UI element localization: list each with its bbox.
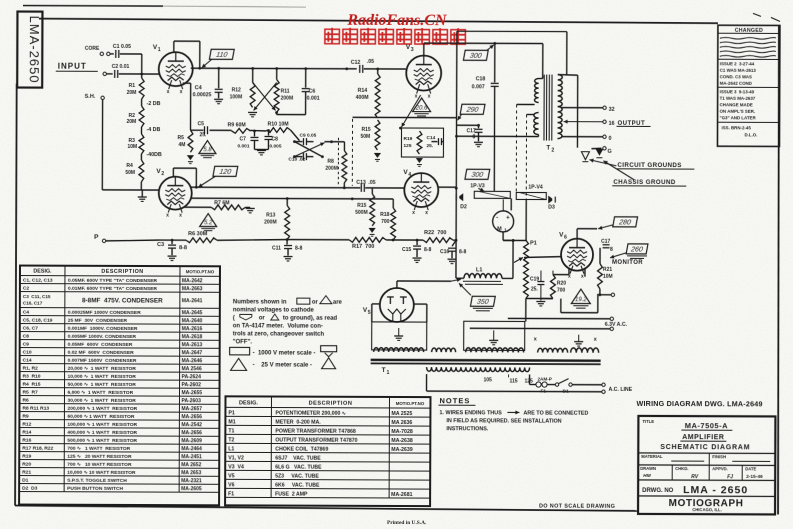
svg-text:T2: T2 [228,437,234,443]
svg-text:10,000 ∿ 10 WATT RESISTOR: 10,000 ∿ 10 WATT RESISTOR [67,470,136,476]
B+ riser [455,31,458,240]
svg-text:R21: R21 [22,470,31,476]
svg-text:0.05MF. 600V TYPE "TA" CONDENS: 0.05MF. 600V TYPE "TA" CONDENSER [68,278,158,284]
svg-text:FINISH: FINISH [712,454,726,459]
svg-text:WIRING DIAGRAM DWG. LMA-2649: WIRING DIAGRAM DWG. LMA-2649 [636,399,762,408]
svg-text:8-8: 8-8 [179,245,187,251]
svg-text:METER 0-200 MA.: METER 0-200 MA. [275,419,321,425]
svg-text:400M: 400M [356,95,369,101]
capacitor C18 .007 [494,43,496,82]
arrow 120 to V2 plate [198,176,215,187]
svg-text:500,000 ∿ 1 WATT RESISTOR: 500,000 ∿ 1 WATT RESISTOR [67,438,137,444]
voltage box 290 [460,104,485,114]
svg-text:6L6 G VAC. TUBE: 6L6 G VAC. TUBE [275,464,322,470]
cathode resistor R7 6M wire [183,206,211,208]
svg-text:R9: R9 [22,414,29,420]
dashed link 1P-V3 [515,104,517,192]
revision box CHANGED [717,25,779,146]
svg-text:C7: C7 [239,136,246,142]
svg-text:2-15-46: 2-15-46 [746,474,763,480]
wire V5 plates down [372,303,380,305]
arrow 290 to riser [458,114,462,120]
capacitor C11 8-8 [286,240,288,245]
wire C6 drop [305,69,307,88]
wire jack row verticals [510,198,512,210]
svg-text:R4 R15: R4 R15 [23,382,41,388]
svg-text:DRAWN: DRAWN [640,466,656,471]
capacitor C4 .00025 [215,88,223,90]
svg-text:SCHEMATIC DIAGRAM: SCHEMATIC DIAGRAM [660,444,750,451]
border frame right [777,25,780,514]
svg-text:CHANGE MADE: CHANGE MADE [720,102,753,107]
svg-text:105: 105 [484,377,493,383]
svg-text:MA-2641: MA-2641 [182,298,203,304]
svg-text:20.6: 20.6 [415,105,428,111]
resistor R14 400M [376,68,379,71]
svg-text:R17 700: R17 700 [352,244,374,250]
wire L1 to P1 top [502,277,513,279]
resistor R5 4M [188,130,193,152]
resistor R18 700 [391,208,396,240]
choke core hatch [463,280,501,282]
rectifier tube V5 5Z3 [380,288,414,322]
T1 winding 4 [538,348,568,352]
wire input to C1 [110,53,114,55]
svg-text:5.2: 5.2 [204,220,213,226]
svg-text:CIRCUIT GROUNDS: CIRCUIT GROUNDS [617,162,681,169]
svg-text:0.001: 0.001 [307,96,320,102]
resistor R11 200M [274,80,279,113]
svg-text:30,000 ∿ 1 WATT RESISTOR: 30,000 ∿ 1 WATT RESISTOR [67,398,136,404]
svg-text:20,000 ∿ 1 WATT RESISTOR: 20,000 ∿ 1 WATT RESISTOR [68,366,137,372]
svg-text:C2: C2 [23,286,30,292]
svg-text:700: 700 [381,219,390,225]
svg-text:P1: P1 [228,410,234,416]
bias bus to B+ riser [453,239,456,241]
triangle 20.6 cathode V3 [413,98,431,112]
corner pen marks [753,13,761,16]
svg-text:POWER TRANSFORMER T47868: POWER TRANSFORMER T47868 [275,428,356,434]
svg-text:400,000 ∿ 1 WATT RESISTOR: 400,000 ∿ 1 WATT RESISTOR [67,430,137,436]
svg-text:R5 R7: R5 R7 [22,390,38,396]
wire P1 wiper to V6 grid [524,256,561,257]
svg-text:MA-2642 COND: MA-2642 COND [720,81,752,86]
svg-text:300: 300 [469,53,482,60]
arrow 1P-V3 [478,188,484,191]
output transformer T2 core [543,75,545,141]
svg-text:C16, C17: C16, C17 [23,301,43,306]
wire C1 to divider [120,53,142,55]
svg-text:CHASSIS GROUND: CHASSIS GROUND [613,179,675,186]
svg-text:1. WIRES ENDING THUS: 1. WIRES ENDING THUS [439,410,502,416]
wire riser to L1 [455,240,457,278]
capacitor C6 .001 [302,88,310,90]
svg-text:R21: R21 [603,267,612,273]
svg-text:"OFF".: "OFF". [233,339,253,345]
svg-text:280: 280 [618,219,632,226]
V3 cathode diagonal [402,95,421,127]
svg-text:120: 120 [219,169,232,176]
svg-text:D2 D3: D2 D3 [22,486,38,492]
svg-text:0.007: 0.007 [472,84,485,90]
wire V2 plate to top [172,168,174,177]
resistor R9 60M [232,128,251,133]
svg-text:FUSE 2 AMP: FUSE 2 AMP [275,491,308,497]
wire C6 to R11 bottom [305,92,307,115]
dashed link 1P-V4 [525,114,527,199]
wire M1 bottom [502,232,504,240]
svg-text:RadioFans.CN: RadioFans.CN [346,12,448,29]
svg-text:trols at zero, changeover swit: trols at zero, changeover switch [233,331,325,337]
wire S.H. down to V2 grid [101,100,103,190]
T1 shield box middle [464,321,525,350]
voltage box 300 plate [463,50,488,60]
resistor R13 200M [286,199,288,206]
resistor R7 6M [211,205,245,210]
monitor section bottom wire [526,297,553,299]
capacitor C2 .01 [114,70,116,78]
svg-text:P1: P1 [530,240,537,246]
voltage box 300 screen [465,169,490,179]
svg-text:0.02 MF 600V CONDENSER: 0.02 MF 600V CONDENSER [68,350,135,356]
wire R3-R4 [140,154,142,160]
svg-text:R16: R16 [22,438,31,444]
svg-text:CHKD.: CHKD. [675,466,688,471]
wire V1 plate to top [173,41,175,52]
svg-text:C17: C17 [601,239,610,245]
wire R21 to terminal [599,289,601,295]
wire R11 drop [276,69,278,80]
svg-text:0.001: 0.001 [237,143,249,149]
svg-text:HM: HM [643,473,651,479]
capacitor C7 .001 [253,131,255,136]
svg-text:1P-V3: 1P-V3 [470,183,485,189]
dashed gang link C13 [351,119,353,186]
ground arrow below R15 [374,153,381,158]
wire R1-R2 [141,99,143,106]
svg-text:0.005: 0.005 [269,143,281,149]
svg-text:PA-2602: PA-2602 [182,382,202,388]
svg-text:R18: R18 [380,212,389,218]
svg-text:C5, C18, C19: C5, C18, C19 [23,318,53,324]
svg-text:x: x [166,213,169,219]
T1 filament winding V5 [374,348,424,352]
voltage box 350 [470,296,495,306]
svg-text:D2: D2 [460,204,467,210]
svg-text:MA-2618: MA-2618 [182,334,203,340]
svg-text:MA-7505-A: MA-7505-A [685,421,728,430]
svg-text:L1: L1 [476,267,482,273]
heater wire 6.3V lower [470,327,610,330]
svg-text:10M: 10M [127,144,137,150]
svg-text:"G3" AND LATER: "G3" AND LATER [720,115,757,120]
output tap 32 [562,107,603,109]
svg-text:-: - [496,215,498,221]
svg-text:(: ( [233,315,235,321]
voltage box 260 [626,244,648,254]
svg-text:6: 6 [564,235,567,241]
resistor R19 125 [417,131,422,154]
wire P1 bottom [525,298,527,321]
svg-text:200M: 200M [325,166,338,172]
svg-text:C15: C15 [402,247,411,253]
svg-text:R1: R1 [129,83,136,89]
svg-text:16: 16 [609,121,615,127]
T1 core [371,359,601,362]
svg-text:R3 R10: R3 R10 [23,374,41,380]
svg-text:MA-2321: MA-2321 [181,478,202,484]
circuit ground symbol [581,152,589,160]
svg-text:0.005MF 1000V. CONDENSER: 0.005MF 1000V. CONDENSER [68,334,137,340]
capacitor C1 .05 [115,50,117,58]
wire R8 to V2 plate line [343,183,345,188]
svg-text:S.P.S.T. TOGGLE SWITCH: S.P.S.T. TOGGLE SWITCH [67,478,127,484]
svg-text:R19: R19 [22,454,31,460]
screen box top wire [353,116,457,118]
svg-text:M1: M1 [228,419,235,425]
svg-text:260: 260 [629,246,643,253]
svg-text:0.05MF 600V CONDENSER: 0.05MF 600V CONDENSER [68,342,133,348]
svg-text:R20: R20 [22,462,31,468]
fuse F1 [529,374,531,384]
ground below C16 [448,258,457,260]
svg-text:DO NOT SCALE DRAWING: DO NOT SCALE DRAWING [539,504,615,510]
svg-text:x: x [167,89,170,95]
svg-text:C1, C12, C13: C1, C12, C13 [23,278,53,284]
wire V6 plate [576,229,578,239]
svg-text:R7 6M: R7 6M [214,200,229,206]
svg-text:C10: C10 [23,350,32,356]
svg-text:60,000 ∿ 1 WATT RESISTOR: 60,000 ∿ 1 WATT RESISTOR [67,414,134,420]
T2 primary inner tap upper [517,103,535,105]
ground left of V2 [141,189,158,191]
tube V4 6L6G [404,173,438,207]
svg-text:C3 C11, C15: C3 C11, C15 [23,294,51,299]
svg-text:MA 2636: MA 2636 [391,420,412,426]
B+ bus top [457,30,567,32]
wire V4 plate to riser [438,186,456,188]
svg-text:100M: 100M [230,94,243,100]
T1 shield box left [372,322,427,350]
svg-text:OUTPUT TRANSFORMER T47870: OUTPUT TRANSFORMER T47870 [275,437,357,443]
svg-text:25.: 25. [199,132,207,138]
input terminal C1 [100,52,103,55]
svg-text:MA-2613: MA-2613 [182,342,203,348]
svg-text:MATERIAL: MATERIAL [641,454,663,459]
svg-text:ISSUE 3 9-13-49: ISSUE 3 9-13-49 [720,89,755,94]
heater wire 6.3V upper [508,317,610,319]
svg-text:700: 700 [557,288,566,294]
svg-text:PA-2624: PA-2624 [182,374,202,380]
wire to AC line [573,384,602,386]
svg-text:MA-2616: MA-2616 [182,326,203,332]
svg-text:IN FIELD AS REQUIRED. SEE INST: IN FIELD AS REQUIRED. SEE INSTALLATION [446,418,561,424]
svg-text:MA-2645: MA-2645 [182,310,203,316]
svg-text:C11: C11 [272,246,281,252]
capacitor C14 25 [431,141,437,143]
wire R2-R3 [140,127,142,134]
monitor cathode return wires [597,294,599,313]
svg-text:R14: R14 [22,430,31,436]
svg-text:T1: T1 [228,428,234,434]
resistor R22 700 [423,238,453,243]
svg-text:8: 8 [610,247,613,253]
arrow 110 to plate junction [202,59,212,68]
svg-text:x: x [428,94,431,100]
svg-text:CHANGED: CHANGED [735,28,763,34]
ground below C15 [413,257,422,259]
svg-text:32: 32 [609,107,615,113]
svg-text:D1: D1 [22,478,29,484]
wire D2 bar drop [493,189,495,192]
ground below R12 [248,111,257,113]
secondary feeder vertical [566,32,568,75]
svg-text:AMPLIFIER: AMPLIFIER [682,434,724,441]
triangle 5.2 cathode V2 [200,214,217,227]
resistor R8 200M [343,142,345,151]
wire T2 primary bottom stub [537,135,539,137]
wire to C2 [107,73,113,75]
svg-text:1P-V4: 1P-V4 [528,184,543,190]
svg-text:R6 30M: R6 30M [188,231,208,237]
plate bus V1 to V3 grid [191,67,357,70]
svg-text:6,000 ∿ 1 WATT RESISTOR: 6,000 ∿ 1 WATT RESISTOR [67,390,133,396]
svg-text:R15: R15 [362,127,371,133]
svg-text:0: 0 [608,136,611,142]
svg-text:MA-2656: MA-2656 [181,414,202,420]
svg-text:V5: V5 [228,473,234,479]
svg-text:C6, C7: C6, C7 [23,326,39,332]
resistor R3 10M [139,134,144,154]
output tap 16 [564,121,603,123]
svg-text:x: x [581,274,584,280]
svg-text:200M: 200M [264,219,277,225]
svg-text:R15: R15 [357,203,366,209]
wire riser bias connect [503,239,526,241]
svg-text:nominal voltages to cathode: nominal voltages to cathode [233,307,315,313]
svg-text:R22 700: R22 700 [424,230,446,236]
svg-text:MA-2464: MA-2464 [181,446,202,452]
capacitor C5 25 [191,129,204,131]
P1 wiper arrow [514,257,523,262]
voltage box 120 [213,166,238,176]
potentiometer P1 [525,238,527,240]
svg-text:MA-2451: MA-2451 [181,454,202,460]
svg-text:8-8: 8-8 [295,246,302,252]
output transformer T2 primary winding [535,79,539,103]
tube V6 6K6 monitor [561,239,593,271]
jack D2 symbol [459,193,463,201]
wire T2 primary bottom [456,135,538,137]
wire R12 drop [252,68,254,82]
svg-text:MOTIO.PT.NO: MOTIO.PT.NO [186,269,215,274]
wire R9 to R10 [251,129,267,132]
resistor R6 30M [172,239,186,241]
svg-text:C12: C12 [351,60,361,66]
svg-text:G: G [607,149,611,155]
svg-text:- 1000 V meter scale -: - 1000 V meter scale - [253,350,316,356]
svg-text:C1 WAS MA-2613: C1 WAS MA-2613 [720,68,757,73]
svg-text:2: 2 [161,171,164,177]
svg-text:MA-2646: MA-2646 [182,358,203,364]
svg-text:V1, V2: V1, V2 [228,455,244,461]
svg-text:19.2: 19.2 [575,297,587,303]
svg-text:DESIG.: DESIG. [33,269,52,275]
svg-text:MA-2605: MA-2605 [181,486,202,492]
svg-text:MA-2640: MA-2640 [182,318,203,324]
svg-text:20M: 20M [127,119,137,125]
triangle 5.8 cathode V1 [199,141,216,154]
resistor R1 20M [139,78,144,99]
V2 screen line [190,197,393,200]
capacitor C3 8-8 [171,239,174,242]
svg-text:M: M [497,226,502,232]
svg-text:APPVD.: APPVD. [712,466,728,471]
svg-text:6.3V A.C.: 6.3V A.C. [605,322,628,328]
output transformer T2 secondary winding [557,75,562,139]
svg-text:C6: C6 [309,89,316,95]
cathode wire V1 [183,82,191,84]
svg-text:MA-2681: MA-2681 [391,492,412,498]
svg-text:Numbers shown in: Numbers shown in [233,299,287,305]
pushbutton D2 bar [474,191,510,198]
svg-text:25.: 25. [531,287,539,293]
wire V5 top to L1 [396,281,398,288]
ground below C4 [218,92,220,98]
capacitor C16 8-8 [455,239,458,242]
wire V3 plate to T2 [423,43,425,55]
svg-text:4M: 4M [178,142,185,148]
arrow 300 to junction [487,45,494,51]
svg-text:MA-2542: MA-2542 [181,422,202,428]
divider chain wire top [141,54,143,78]
svg-text:R8: R8 [327,159,334,165]
svg-text:1: 1 [387,370,390,376]
svg-text:4: 4 [408,172,411,178]
border frame left [15,84,17,506]
bias bus wire 3 [287,239,349,241]
svg-text:COND. C3 WAS: COND. C3 WAS [720,74,752,79]
svg-text:110: 110 [215,52,227,59]
svg-text:R17 R18, R22: R17 R18, R22 [22,446,53,452]
svg-text:MA 2652: MA 2652 [181,462,201,468]
svg-text:MA-7028: MA-7028 [391,429,412,435]
svg-text:2: 2 [551,148,554,154]
svg-text:350: 350 [476,299,489,306]
svg-text:MA-2656: MA-2656 [181,430,202,436]
svg-text:x: x [412,210,415,216]
wire C4 drop [218,68,220,88]
pushbutton D3 bar [516,192,546,199]
resistor R10 10M [267,128,291,133]
svg-text:CORE: CORE [85,46,100,52]
svg-text:NOTES: NOTES [439,396,470,405]
svg-text:RV: RV [691,474,699,480]
arrow 260 to grid [610,253,626,258]
svg-text:8: 8 [472,134,475,140]
svg-text:25 MF 30V CONDENSER: 25 MF 30V CONDENSER [68,318,128,324]
svg-text:MA-2663: MA-2663 [182,286,203,292]
tube V1 6SJ7 [159,52,193,86]
parts table right [225,396,430,506]
svg-text:PA-2603: PA-2603 [181,398,201,404]
arrow 350 to choke [459,283,471,295]
svg-text:-40DB: -40DB [146,152,162,158]
svg-text:20M: 20M [127,90,137,96]
svg-text:C14: C14 [426,135,435,141]
svg-text:ISSUE 2 3-27-44: ISSUE 2 3-27-44 [720,61,755,66]
svg-text:R11: R11 [281,89,290,95]
